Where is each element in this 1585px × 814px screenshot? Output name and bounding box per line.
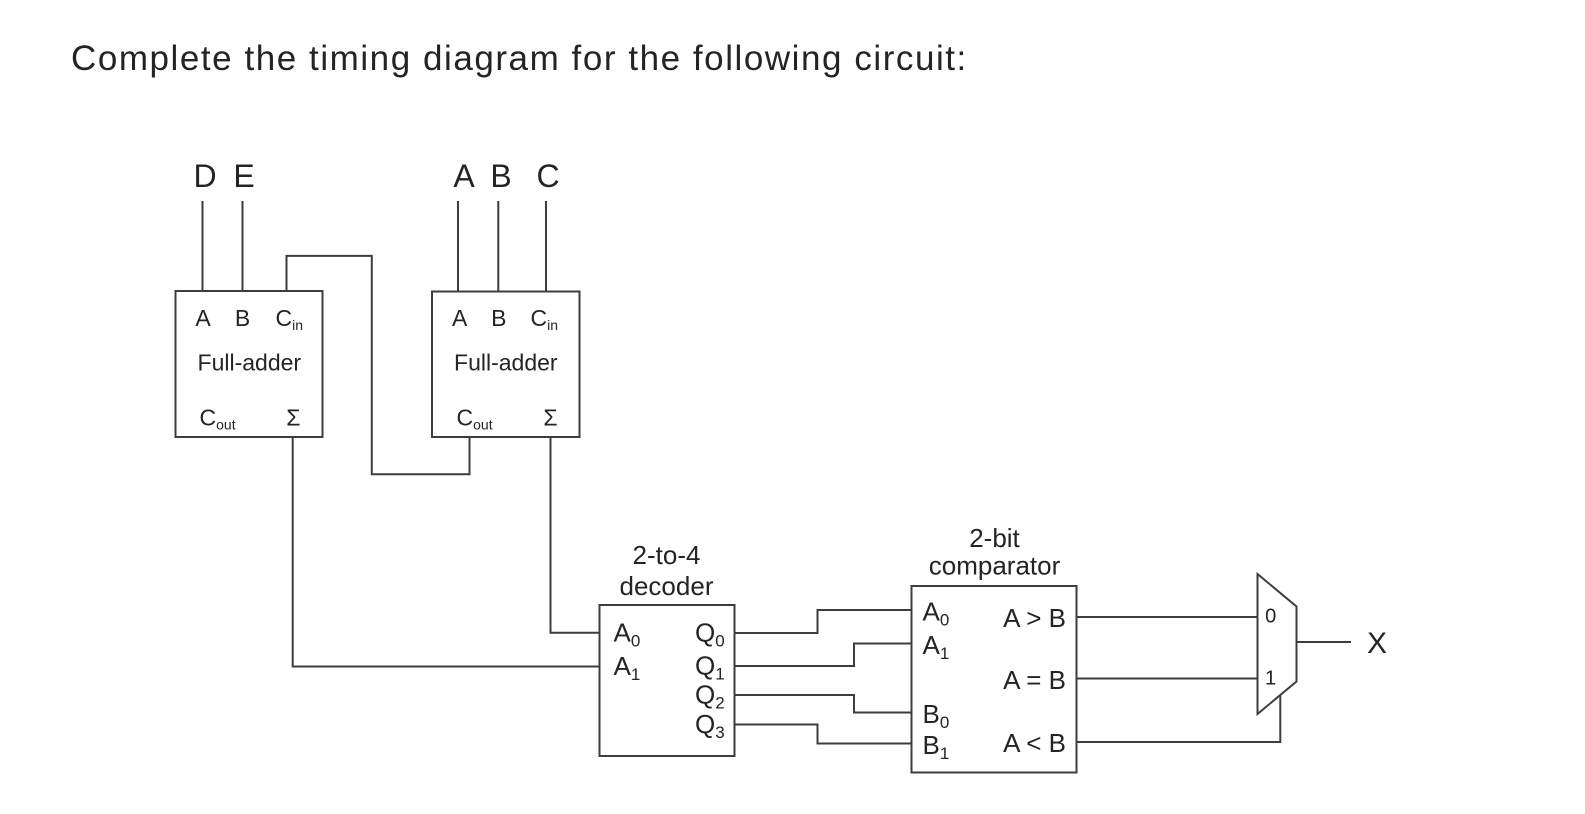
svg-text:A < B: A < B [1003,728,1066,758]
wire Q1 to comparator A1 [735,644,912,667]
wire Q2 to comparator B0 [735,695,912,713]
svg-text:E: E [233,158,254,194]
title caption [71,39,968,78]
svg-text:decoder: decoder [620,571,714,601]
svg-text:B: B [491,305,506,331]
svg-text:comparator: comparator [929,551,1061,581]
node B label [490,158,511,194]
wire carry U2.Cout to U1.Cin [287,256,470,474]
svg-text:A: A [452,305,468,331]
svg-text:Σ: Σ [543,405,557,431]
wire Q3 to comparator B1 [735,725,912,744]
wire C input [545,201,547,292]
svg-text:Complete the timing diagram fo: Complete the timing diagram for the foll… [71,39,968,78]
node C label [536,158,559,194]
wire A equal B to mux input 1 [1077,678,1258,680]
svg-text:2-to-4: 2-to-4 [633,540,701,570]
svg-text:0: 0 [1265,606,1276,628]
svg-text:Σ: Σ [286,405,300,431]
node X label [1367,627,1387,660]
wire E input [242,201,244,291]
svg-text:A: A [453,158,475,194]
wire B input [497,201,499,292]
mux U5 [1258,574,1297,714]
comparator U4 [912,523,1077,773]
svg-text:Full-adder: Full-adder [198,350,302,376]
decoder U3 [600,540,735,756]
svg-text:1: 1 [1265,668,1276,690]
svg-text:2-bit: 2-bit [969,523,1020,553]
wire A input [457,201,459,292]
svg-text:Full-adder: Full-adder [454,350,558,376]
full-adder U1 [176,291,323,437]
svg-text:A > B: A > B [1003,603,1066,633]
svg-text:B: B [490,158,511,194]
svg-text:D: D [193,158,216,194]
node E label [233,158,254,194]
node A label [453,158,475,194]
node D label [193,158,216,194]
wire D input [202,201,204,291]
wire A greater B to mux input 0 [1077,616,1258,618]
wire mux output [1297,641,1352,643]
svg-text:B: B [235,305,250,331]
full-adder U2 [432,292,580,438]
wire Q0 to comparator A0 [735,610,912,633]
svg-text:A = B: A = B [1003,665,1066,695]
svg-text:X: X [1367,627,1387,660]
wire A less B to mux select [1077,695,1281,742]
wire U1 sum to decoder A1 [293,437,600,667]
svg-text:C: C [536,158,559,194]
wire U2 sum to decoder A0 [551,437,600,633]
svg-text:A: A [195,305,211,331]
